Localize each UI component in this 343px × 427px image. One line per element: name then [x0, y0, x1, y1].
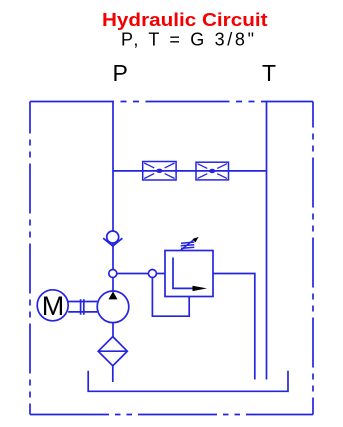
pump triangle (flow direction)	[109, 291, 118, 299]
node pilot junction	[148, 270, 156, 278]
internal flow path	[173, 258, 194, 289]
filter F1	[98, 337, 127, 366]
coupling symbol 1	[143, 162, 176, 181]
adjustment arrow shaft	[180, 238, 195, 250]
wire filter suction into tank	[112, 366, 114, 382]
relief valve U1	[152, 238, 254, 379]
svg-text:M: M	[42, 291, 65, 321]
relief adjustment arrowhead	[193, 237, 199, 243]
spring	[181, 242, 195, 248]
shaft coupling	[68, 299, 97, 315]
coupling symbol 2	[196, 162, 229, 180]
wire branch P to T	[113, 170, 267, 172]
node junction on P line	[109, 270, 117, 278]
pump P1	[97, 291, 129, 323]
enclosure boundary (phantom dashed box)	[30, 102, 313, 415]
electric motor M1	[37, 290, 68, 321]
svg-text:T: T	[262, 60, 276, 86]
wire node to relief valve	[117, 273, 165, 275]
wire T line vertical	[266, 102, 268, 380]
tank reservoir	[88, 371, 288, 392]
relief internal arrowhead	[193, 286, 208, 291]
wire pump to filter	[112, 323, 114, 337]
svg-text:P: P	[113, 60, 128, 86]
check valve	[103, 231, 122, 246]
pilot line	[152, 278, 189, 317]
wire outlet to tank	[213, 274, 255, 380]
svg-text:Hydraulic Circuit: Hydraulic Circuit	[102, 10, 268, 30]
valve body	[165, 251, 213, 297]
wire P line vertical	[112, 102, 114, 292]
svg-text:P, T = G 3/8": P, T = G 3/8"	[121, 30, 254, 50]
